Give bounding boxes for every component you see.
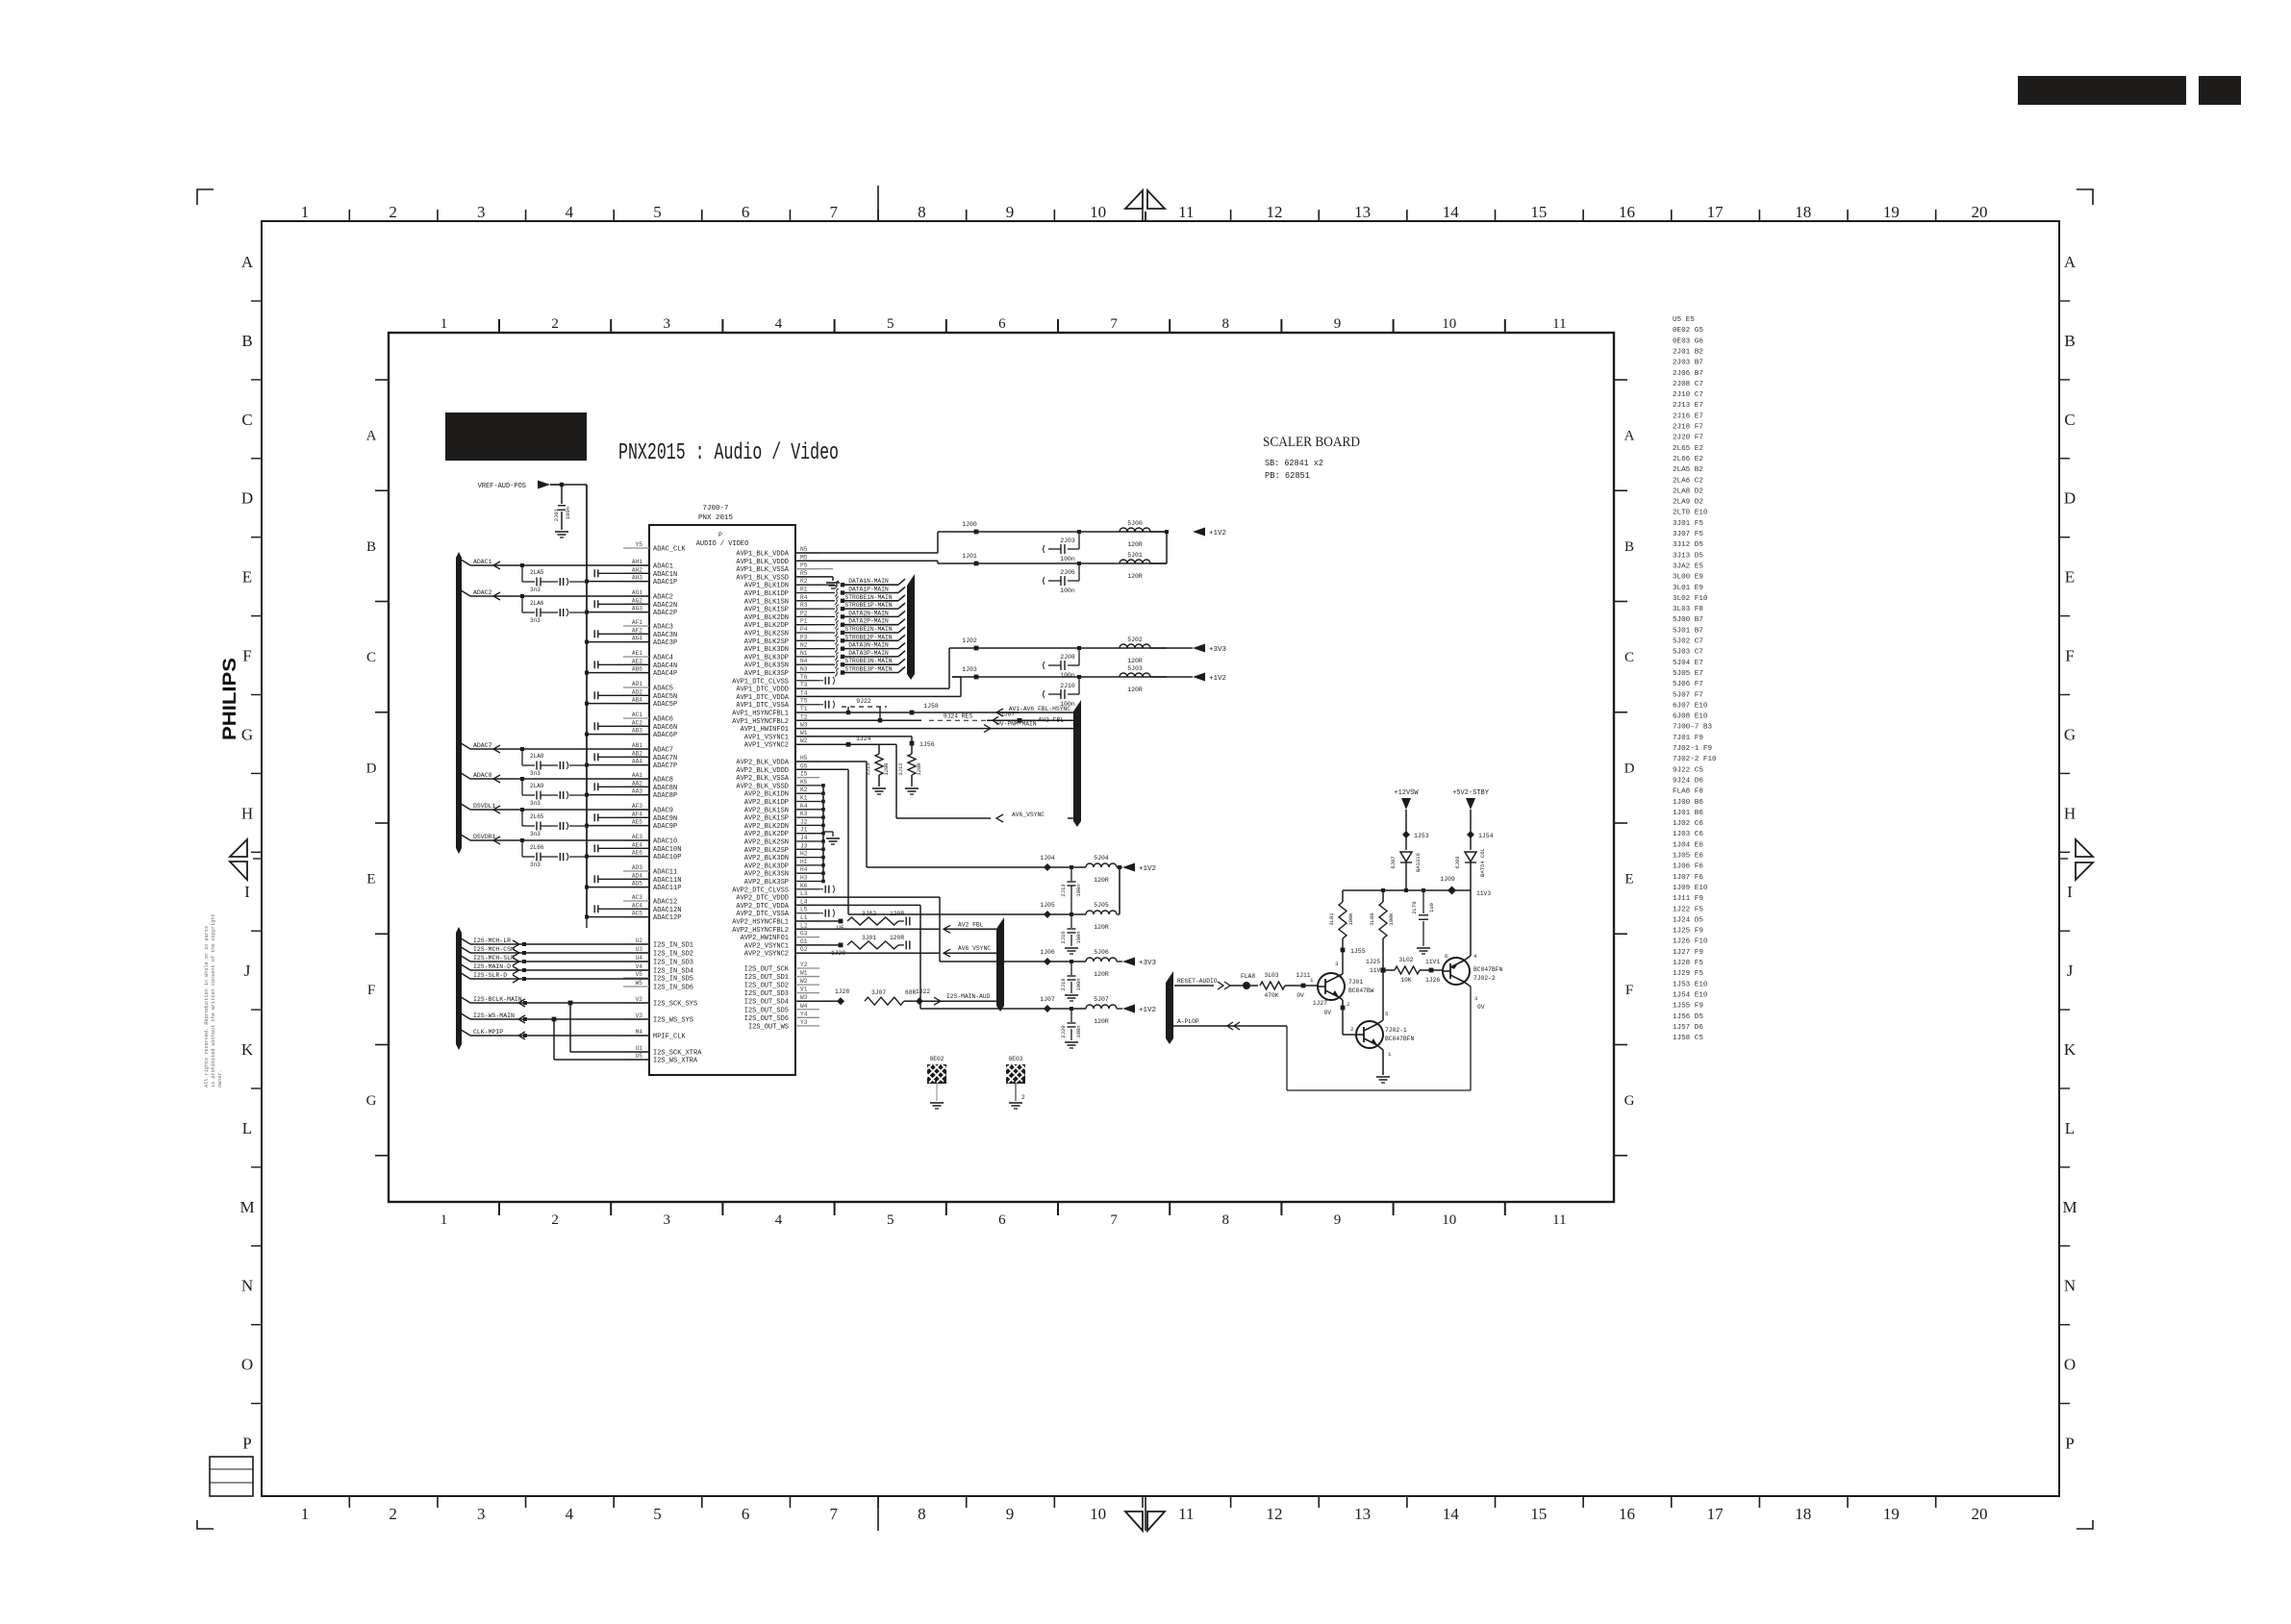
svg-text:ADAC7: ADAC7 xyxy=(473,742,492,749)
svg-text:AD4: AD4 xyxy=(632,872,642,879)
svg-text:100n: 100n xyxy=(565,507,571,519)
svg-text:ADAC11N: ADAC11N xyxy=(653,877,681,885)
resistor 3L00 100K xyxy=(1382,890,1384,902)
svg-text:4: 4 xyxy=(1473,953,1477,960)
node 1J58 xyxy=(910,711,915,715)
svg-text:Y4: Y4 xyxy=(800,1011,808,1017)
svg-text:AA2: AA2 xyxy=(632,780,642,787)
svg-text:1J67: 1J67 xyxy=(1000,711,1015,717)
fold mark left centre xyxy=(230,839,247,857)
svg-text:5J07: 5J07 xyxy=(1094,996,1109,1003)
svg-text:1J07 F6: 1J07 F6 xyxy=(1673,874,1703,882)
svg-text:13: 13 xyxy=(1354,203,1371,221)
svg-text:N4: N4 xyxy=(800,658,808,664)
svg-text:C: C xyxy=(1624,650,1634,665)
svg-text:AE4: AE4 xyxy=(632,841,642,848)
svg-text:AA1: AA1 xyxy=(632,772,642,779)
svg-text:AV2 FBL: AV2 FBL xyxy=(1039,716,1065,723)
svg-text:AVP2_BLK_VDDA: AVP2_BLK_VDDA xyxy=(736,760,789,767)
node 1J09 xyxy=(1448,887,1456,895)
svg-text:16: 16 xyxy=(1619,203,1635,221)
svg-text:N3: N3 xyxy=(800,666,808,673)
svg-text:FLA8: FLA8 xyxy=(1241,973,1255,980)
svg-text:3L02: 3L02 xyxy=(1398,957,1413,963)
svg-text:L: L xyxy=(2065,1119,2075,1137)
svg-text:SCALER BOARD: SCALER BOARD xyxy=(1263,435,1360,450)
svg-text:5J04: 5J04 xyxy=(1094,855,1109,862)
corner mark top-right xyxy=(2077,189,2093,205)
svg-text:AB6: AB6 xyxy=(632,666,642,673)
svg-text:STROBE3N-MAIN: STROBE3N-MAIN xyxy=(844,658,892,664)
svg-text:AVP2_BLK3SN: AVP2_BLK3SN xyxy=(744,871,789,879)
svg-text:1J03 C6: 1J03 C6 xyxy=(1673,831,1703,838)
svg-text:T1: T1 xyxy=(800,706,808,712)
svg-text:120R: 120R xyxy=(1094,877,1109,884)
svg-text:2J18: 2J18 xyxy=(1060,978,1067,990)
svg-text:F: F xyxy=(367,983,375,998)
svg-text:1J25: 1J25 xyxy=(1366,959,1380,965)
svg-text:3L03: 3L03 xyxy=(1264,972,1278,979)
svg-text:ADAC_CLK: ADAC_CLK xyxy=(653,546,686,554)
svg-text:1J58 C5: 1J58 C5 xyxy=(1673,1035,1703,1042)
svg-text:2: 2 xyxy=(1347,1001,1350,1008)
svg-text:ADAC12P: ADAC12P xyxy=(653,914,681,922)
svg-text:I2S_IN_SD6: I2S_IN_SD6 xyxy=(653,985,693,992)
svg-text:0E03: 0E03 xyxy=(1008,1056,1022,1062)
capacitor 2J16 100n xyxy=(1070,912,1073,916)
svg-text:ADAC1: ADAC1 xyxy=(473,559,492,565)
svg-text:DATA3N-MAIN: DATA3N-MAIN xyxy=(848,642,889,649)
svg-text:1J05 E6: 1J05 E6 xyxy=(1673,853,1703,861)
svg-text:ADAC2: ADAC2 xyxy=(473,589,492,596)
svg-text:I2S_OUT_SCK: I2S_OUT_SCK xyxy=(744,966,790,974)
svg-text:T3: T3 xyxy=(800,682,808,688)
svg-text:K: K xyxy=(241,1040,254,1059)
svg-text:I2S_OUT_SD6: I2S_OUT_SD6 xyxy=(744,1015,789,1023)
svg-text:A: A xyxy=(1624,429,1635,444)
svg-text:J1: J1 xyxy=(800,827,808,834)
net I2S-MAIN-AUD with resistor 3J07 68R xyxy=(795,1000,841,1002)
svg-text:1: 1 xyxy=(1310,977,1314,984)
net ADAC7 from input bus xyxy=(458,741,470,749)
svg-text:1: 1 xyxy=(301,203,310,221)
svg-text:5: 5 xyxy=(653,203,662,221)
svg-text:AVP1_BLK_VSSD: AVP1_BLK_VSSD xyxy=(736,574,789,582)
svg-text:W5: W5 xyxy=(636,980,643,987)
svg-text:PB: 62851: PB: 62851 xyxy=(1265,470,1310,481)
svg-text:L4: L4 xyxy=(800,898,808,905)
wire pin T3 to node 1J02 xyxy=(795,687,949,689)
bus bracket RESET-AUDIO / A-PLOP xyxy=(1166,971,1173,1044)
inductor 5J01 120R xyxy=(1120,560,1150,563)
svg-text:ADAC1P: ADAC1P xyxy=(653,579,677,587)
svg-text:5J05 E7: 5J05 E7 xyxy=(1673,670,1703,678)
net DSVDL1 from input bus xyxy=(458,802,470,810)
svg-text:1J11: 1J11 xyxy=(1296,972,1310,979)
svg-text:100n: 100n xyxy=(1075,1025,1082,1037)
outer border frame xyxy=(262,221,2059,1496)
ground below 2J20 xyxy=(1070,1029,1072,1040)
svg-text:6: 6 xyxy=(742,203,750,221)
capacitor 2L65 3n3 xyxy=(520,808,524,812)
svg-text:W1: W1 xyxy=(800,970,808,977)
svg-text:M4: M4 xyxy=(636,1029,643,1036)
svg-text:AVP1_BLK1SP: AVP1_BLK1SP xyxy=(744,607,789,614)
svg-text:2LA8 D2: 2LA8 D2 xyxy=(1673,487,1703,495)
svg-text:J: J xyxy=(244,962,251,980)
svg-text:1J25 F9: 1J25 F9 xyxy=(1673,928,1703,936)
svg-text:4: 4 xyxy=(775,316,783,332)
svg-text:AB3: AB3 xyxy=(632,728,642,735)
svg-text:A: A xyxy=(241,253,254,271)
svg-text:C: C xyxy=(2064,411,2075,429)
svg-text:I2S_SCK_XTRA: I2S_SCK_XTRA xyxy=(653,1050,702,1058)
svg-text:0V: 0V xyxy=(1477,1004,1485,1011)
svg-text:N: N xyxy=(241,1277,253,1295)
transistor 7J02-1 BC847BFN xyxy=(1356,1021,1383,1048)
svg-text:11: 11 xyxy=(1552,1212,1566,1228)
capacitor at pin T5 xyxy=(795,704,823,706)
svg-text:2J16 E7: 2J16 E7 xyxy=(1673,412,1703,420)
svg-text:E: E xyxy=(242,568,252,587)
power net +12VSW arrow xyxy=(1401,798,1411,810)
svg-text:ADAC9: ADAC9 xyxy=(653,808,673,815)
double chevron on A-PLOP xyxy=(1227,1022,1233,1030)
svg-text:9J22 C5: 9J22 C5 xyxy=(1673,766,1703,774)
svg-text:1: 1 xyxy=(441,316,448,332)
svg-text:6: 6 xyxy=(742,1505,750,1523)
node 1J27 xyxy=(1341,1006,1346,1011)
svg-text:1J22 F5: 1J22 F5 xyxy=(1673,906,1703,913)
svg-text:AVP1_DTC_VDDD: AVP1_DTC_VDDD xyxy=(736,687,789,694)
outer top ruler ticks xyxy=(348,210,350,221)
resistor 3J13 120R xyxy=(875,754,883,775)
svg-text:AVP1_BLK1DP: AVP1_BLK1DP xyxy=(744,590,789,598)
svg-text:C: C xyxy=(366,650,376,665)
svg-text:DSVDL1: DSVDL1 xyxy=(473,803,496,810)
svg-text:5: 5 xyxy=(653,1505,662,1523)
svg-text:DSVDR1: DSVDR1 xyxy=(473,834,496,840)
svg-text:AD1: AD1 xyxy=(632,681,642,687)
svg-text:ADAC8P: ADAC8P xyxy=(653,792,677,800)
outer left ruler ticks xyxy=(251,300,262,302)
wire 11V3 rail xyxy=(1343,889,1471,891)
svg-text:3JA2 E5: 3JA2 E5 xyxy=(1673,562,1703,570)
svg-text:AG3: AG3 xyxy=(632,606,642,612)
svg-text:K6: K6 xyxy=(800,883,808,889)
svg-text:E: E xyxy=(2065,568,2075,587)
resistor 3J12 120R xyxy=(911,743,913,754)
svg-text:DATA1P-MAIN: DATA1P-MAIN xyxy=(848,587,889,593)
svg-text:BC847BW: BC847BW xyxy=(1348,987,1374,994)
svg-text:7: 7 xyxy=(1110,316,1118,332)
svg-text:AVP2_VSYNC2: AVP2_VSYNC2 xyxy=(744,951,789,959)
svg-text:2L65 E2: 2L65 E2 xyxy=(1673,445,1703,453)
svg-text:ADAC8N: ADAC8N xyxy=(653,785,677,792)
svg-text:G1: G1 xyxy=(800,938,808,945)
svg-text:L5: L5 xyxy=(800,907,808,913)
svg-text:U4: U4 xyxy=(636,955,643,962)
transistor 7J01 BC847BW xyxy=(1318,973,1345,1000)
svg-text:5: 5 xyxy=(1385,1011,1389,1017)
svg-text:+12VSW: +12VSW xyxy=(1394,789,1419,797)
outer right ruler ticks xyxy=(2059,300,2070,302)
svg-text:A: A xyxy=(366,429,377,444)
net DATA3P-MAIN xyxy=(795,656,835,658)
svg-text:I2S_WS_SYS: I2S_WS_SYS xyxy=(653,1017,693,1025)
svg-text:K2: K2 xyxy=(800,787,808,793)
wire 2J13 to 1J05 row xyxy=(1070,886,1072,914)
net STROBE1P-MAIN xyxy=(795,608,835,610)
svg-text:7J01: 7J01 xyxy=(1348,979,1363,986)
svg-text:E: E xyxy=(1624,872,1633,887)
wire pin T4 to node 1J03 xyxy=(795,695,961,697)
svg-text:ADAC3: ADAC3 xyxy=(653,624,673,632)
svg-text:AVP2_BLK_VSSA: AVP2_BLK_VSSA xyxy=(736,775,789,783)
svg-text:U5: U5 xyxy=(636,1053,643,1060)
svg-text:1J24 D5: 1J24 D5 xyxy=(1673,916,1703,924)
svg-text:6J07: 6J07 xyxy=(1390,856,1397,868)
svg-text:3JA2: 3JA2 xyxy=(862,911,876,917)
resistor 3JA2 120R on AVP2_HSYNCFBL1 xyxy=(795,920,841,922)
svg-text:All rights reserved. Reproduct: All rights reserved. Reproduction in who… xyxy=(204,926,210,1087)
svg-text:1J07: 1J07 xyxy=(1040,996,1055,1003)
svg-text:3n3: 3n3 xyxy=(530,770,541,777)
audio input bus bar upper xyxy=(456,552,462,854)
svg-text:A: A xyxy=(2064,253,2077,271)
svg-text:I2S-MCH-LR: I2S-MCH-LR xyxy=(473,937,511,944)
svg-text:8: 8 xyxy=(1222,316,1230,332)
svg-text:AVP2_BLK2DN: AVP2_BLK2DN xyxy=(744,823,789,831)
svg-text:AD5: AD5 xyxy=(632,881,642,887)
svg-text:AVP1_BLK_VDDA: AVP1_BLK_VDDA xyxy=(736,551,789,559)
svg-text:2LA9: 2LA9 xyxy=(530,783,544,789)
diode 6J07 BAS316 xyxy=(1400,852,1412,862)
svg-text:K: K xyxy=(2064,1040,2077,1059)
svg-text:J: J xyxy=(2067,962,2074,980)
net AV2 FBL (AVP2_HSYNCFBL2) xyxy=(795,928,940,930)
net AV1-AV6 FBL-HSYNC xyxy=(996,709,1003,716)
svg-text:AVP2_HWINFO1: AVP2_HWINFO1 xyxy=(741,935,789,942)
svg-text:2L66: 2L66 xyxy=(530,844,544,851)
svg-text:FLA8 F8: FLA8 F8 xyxy=(1673,788,1703,796)
svg-text:AC1: AC1 xyxy=(632,712,642,718)
svg-text:SB: 62841 x2: SB: 62841 x2 xyxy=(1265,458,1323,468)
svg-text:9J24 D6: 9J24 D6 xyxy=(1673,777,1703,785)
power net +3V3 arrow xyxy=(1193,644,1205,653)
svg-text:O: O xyxy=(241,1356,253,1374)
svg-text:I2S-MAIN-D: I2S-MAIN-D xyxy=(473,963,511,970)
svg-text:V1: V1 xyxy=(800,987,808,993)
net CLK-MPIP xyxy=(458,1028,470,1036)
svg-text:1J57 D6: 1J57 D6 xyxy=(1673,1024,1703,1032)
svg-text:G: G xyxy=(2064,725,2076,743)
svg-text:AVP1_BLK3DP: AVP1_BLK3DP xyxy=(744,654,789,662)
svg-text:18: 18 xyxy=(1795,1505,1811,1523)
audio input bus bar lower xyxy=(456,927,462,1050)
revision table bottom-left xyxy=(210,1457,253,1496)
svg-text:3: 3 xyxy=(477,1505,486,1523)
svg-text:AVP2_BLK3DN: AVP2_BLK3DN xyxy=(744,855,789,862)
capacitor 2J20 100n xyxy=(1070,1007,1073,1011)
FBL/HSYNC bus bracket xyxy=(1073,700,1081,827)
svg-text:G5: G5 xyxy=(800,762,808,769)
node VREF junction xyxy=(560,483,564,487)
svg-text:5J00 B7: 5J00 B7 xyxy=(1673,616,1703,624)
wires ADAC pin groups to rail xyxy=(585,580,589,584)
svg-text:100n: 100n xyxy=(1060,672,1075,679)
svg-text:15: 15 xyxy=(1530,203,1547,221)
svg-text:R2: R2 xyxy=(800,578,808,585)
svg-text:AVP2_BLK_VSSD: AVP2_BLK_VSSD xyxy=(736,783,789,790)
svg-text:1J54 E10: 1J54 E10 xyxy=(1673,991,1708,999)
net I2S-MCH-CSM xyxy=(458,945,470,953)
svg-text:P5: P5 xyxy=(800,562,808,569)
fold mark bottom centre xyxy=(1125,1512,1143,1531)
resistor 3L01 100K xyxy=(1342,890,1344,902)
svg-text:STROBE2P-MAIN: STROBE2P-MAIN xyxy=(844,634,892,640)
diode 6J08 BAT54 xyxy=(1465,852,1476,862)
svg-text:ADAC1N: ADAC1N xyxy=(653,571,677,579)
ground below 2J01 xyxy=(555,531,568,533)
svg-text:AVP2_BLK1DP: AVP2_BLK1DP xyxy=(744,799,789,807)
svg-text:P4: P4 xyxy=(800,626,808,633)
svg-text:AVP1_DTC_VDDA: AVP1_DTC_VDDA xyxy=(736,694,789,702)
inductor 5J07 120R xyxy=(1086,1005,1117,1009)
svg-text:AE3: AE3 xyxy=(632,834,642,840)
svg-text:11V1: 11V1 xyxy=(1425,959,1440,965)
inner frame column ticks xyxy=(498,319,500,333)
svg-text:AV2 FBL: AV2 FBL xyxy=(958,921,984,928)
svg-text:120R: 120R xyxy=(1127,541,1143,548)
svg-text:AD2: AD2 xyxy=(632,688,642,695)
svg-text:5: 5 xyxy=(887,316,894,332)
svg-text:STROBE2N-MAIN: STROBE2N-MAIN xyxy=(844,626,892,633)
resistor 9J24 RES (dashed) on HSYNCFBL2 xyxy=(795,719,921,721)
svg-text:BAT54 C6L: BAT54 C6L xyxy=(1479,848,1486,877)
svg-text:ADAC8: ADAC8 xyxy=(653,777,673,785)
svg-text:10: 10 xyxy=(1442,316,1456,332)
svg-text:owner.: owner. xyxy=(217,1069,223,1087)
svg-text:O: O xyxy=(2064,1356,2076,1374)
svg-text:AVP2_DTC_VDDD: AVP2_DTC_VDDD xyxy=(736,895,789,903)
svg-text:5J05: 5J05 xyxy=(1094,902,1109,909)
svg-text:I2S-MAIN-AUD: I2S-MAIN-AUD xyxy=(946,993,991,1000)
transistor 7J02-2 BC847BFN xyxy=(1443,958,1470,985)
svg-text:100n: 100n xyxy=(1060,587,1075,594)
svg-text:5J03: 5J03 xyxy=(1127,665,1143,672)
svg-text:6: 6 xyxy=(998,316,1006,332)
svg-text:7J02-1 F9: 7J02-1 F9 xyxy=(1673,745,1712,753)
svg-text:PNX 2015: PNX 2015 xyxy=(698,514,734,522)
svg-text:AVP1_BLK1SN: AVP1_BLK1SN xyxy=(744,598,789,606)
wire +1V2 tie xyxy=(1166,532,1168,563)
svg-text:I2S_OUT_WS: I2S_OUT_WS xyxy=(748,1023,789,1031)
svg-text:9: 9 xyxy=(1334,1212,1342,1228)
svg-text:I: I xyxy=(244,883,250,901)
svg-text:20: 20 xyxy=(1972,1505,1988,1523)
net ADAC2 from input bus xyxy=(458,588,470,596)
svg-text:D: D xyxy=(2064,489,2076,508)
svg-text:470K: 470K xyxy=(1264,992,1278,999)
wire A-PLOP loop to 7J02-2 emitter xyxy=(1286,1026,1288,1090)
svg-text:D: D xyxy=(241,489,253,508)
svg-text:AV6 VSYNC: AV6 VSYNC xyxy=(958,945,991,952)
svg-text:HV-PNM-MAIN: HV-PNM-MAIN xyxy=(996,721,1037,728)
svg-text:8: 8 xyxy=(918,1505,926,1523)
svg-text:I2S-MCH-CSM: I2S-MCH-CSM xyxy=(473,946,515,953)
svg-text:2J20: 2J20 xyxy=(1060,1025,1067,1037)
svg-text:I2S_OUT_SD4: I2S_OUT_SD4 xyxy=(744,999,789,1007)
svg-text:3J01 F5: 3J01 F5 xyxy=(1673,520,1703,528)
svg-text:100n: 100n xyxy=(1060,556,1075,562)
svg-text:3J07: 3J07 xyxy=(871,989,886,996)
svg-text:AVP2_BLK3DP: AVP2_BLK3DP xyxy=(744,862,789,870)
svg-text:VREF-AUD-POS: VREF-AUD-POS xyxy=(478,483,526,490)
svg-text:3n3: 3n3 xyxy=(530,800,541,807)
svg-text:DATA1N-MAIN: DATA1N-MAIN xyxy=(848,578,889,585)
svg-text:ADAC6P: ADAC6P xyxy=(653,732,677,739)
svg-text:1J05: 1J05 xyxy=(1040,902,1055,909)
svg-text:AVP2_DTC_VSSA: AVP2_DTC_VSSA xyxy=(736,911,789,918)
svg-text:1J09 E10: 1J09 E10 xyxy=(1673,885,1708,892)
svg-text:ADAC9N: ADAC9N xyxy=(653,815,677,823)
power net +1V2 arrow (row 1J03) xyxy=(1193,673,1205,682)
svg-text:1: 1 xyxy=(301,1505,310,1523)
svg-text:V5: V5 xyxy=(636,971,643,978)
svg-text:I5: I5 xyxy=(800,771,808,778)
svg-text:AC4: AC4 xyxy=(632,902,642,909)
svg-text:1: 1 xyxy=(1388,1051,1392,1058)
capacitor at pin L5 xyxy=(795,912,823,914)
svg-text:AB1: AB1 xyxy=(632,742,642,749)
svg-text:N5: N5 xyxy=(800,546,808,553)
svg-text:ADAC2N: ADAC2N xyxy=(653,602,677,610)
inductor 5J02 120R xyxy=(1120,644,1150,648)
svg-text:8: 8 xyxy=(1222,1212,1230,1228)
svg-text:120R: 120R xyxy=(883,762,890,776)
svg-text:120R: 120R xyxy=(1094,924,1109,931)
corner mark bottom-right xyxy=(2077,1520,2093,1529)
svg-text:B: B xyxy=(366,539,376,555)
svg-text:ADAC5P: ADAC5P xyxy=(653,701,677,709)
svg-text:4: 4 xyxy=(775,1212,783,1228)
svg-text:J2: J2 xyxy=(800,818,808,825)
svg-text:120R: 120R xyxy=(890,911,904,917)
svg-text:1J26 F10: 1J26 F10 xyxy=(1673,938,1708,946)
svg-text:K1: K1 xyxy=(800,795,808,802)
svg-text:5J02 C7: 5J02 C7 xyxy=(1673,638,1703,646)
svg-text:2J01 B2: 2J01 B2 xyxy=(1673,348,1703,356)
svg-text:1J26: 1J26 xyxy=(1425,977,1440,984)
svg-text:17: 17 xyxy=(1707,1505,1725,1523)
svg-text:1J55 F9: 1J55 F9 xyxy=(1673,1003,1703,1011)
svg-text:5J06 F7: 5J06 F7 xyxy=(1673,681,1703,688)
svg-text:1J58: 1J58 xyxy=(923,703,939,710)
svg-text:3L00 E9: 3L00 E9 xyxy=(1673,574,1703,582)
svg-text:W3: W3 xyxy=(800,722,808,729)
net ADAC1 from input bus xyxy=(458,558,470,565)
svg-text:3n3: 3n3 xyxy=(530,617,541,624)
svg-text:0V: 0V xyxy=(1297,992,1304,999)
svg-text:2: 2 xyxy=(551,316,559,332)
svg-text:U3: U3 xyxy=(636,946,643,953)
svg-text:L2: L2 xyxy=(800,922,808,929)
svg-text:2J06: 2J06 xyxy=(1060,569,1075,576)
svg-text:9: 9 xyxy=(1006,203,1015,221)
node 1J06 xyxy=(1044,958,1051,965)
svg-text:1J29 F5: 1J29 F5 xyxy=(1673,970,1703,978)
